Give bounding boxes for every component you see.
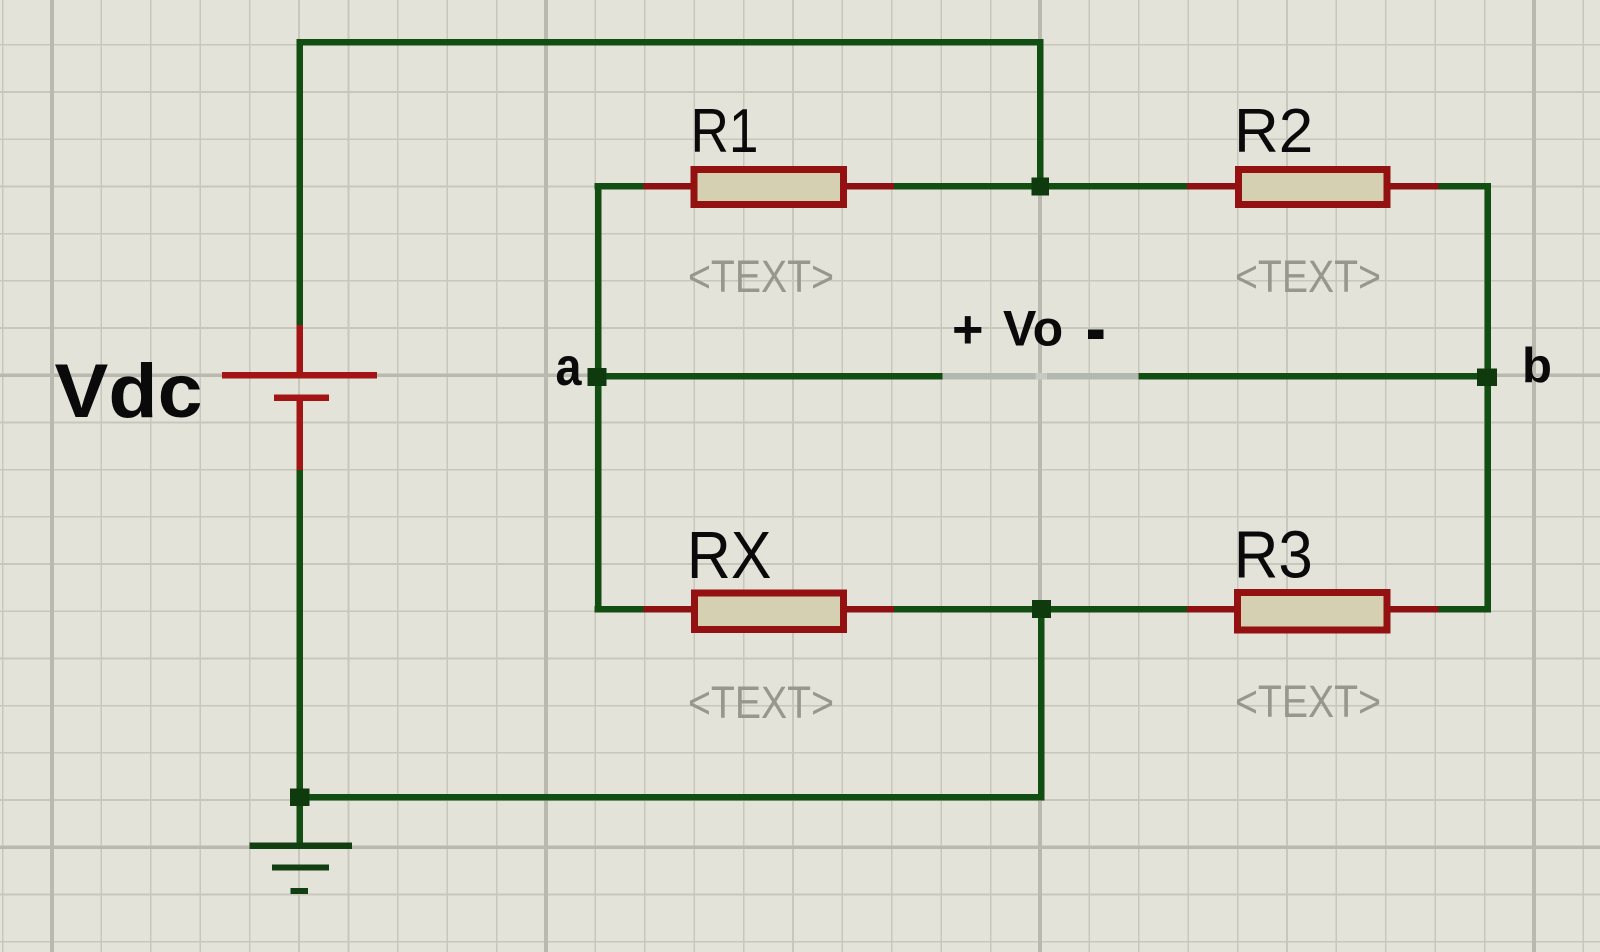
svg-text:R1: R1 (691, 97, 759, 166)
wire middle row left green (node a to Vo) (595, 373, 943, 380)
junction bottom middle (1032, 600, 1051, 618)
svg-text:R2: R2 (1234, 97, 1313, 166)
ground top bar (250, 843, 353, 849)
resistor RX right lead (846, 606, 894, 612)
node a junction (588, 368, 607, 386)
resistor R2 left lead (1187, 183, 1236, 189)
wire row2 left green (595, 606, 645, 613)
ground middle bar (272, 864, 329, 870)
svg-text:<TEXT>: <TEXT> (688, 677, 834, 728)
resistor R1 right lead (846, 183, 894, 189)
resistor RX left lead (644, 606, 693, 612)
wire battery bottom vertical (297, 470, 304, 801)
wire middle row right green (Vo to node b) (1139, 373, 1491, 380)
node b junction (1477, 368, 1497, 386)
wire row1 right green (1437, 183, 1491, 190)
junction top middle (1032, 177, 1050, 195)
resistor R3 right lead (1390, 606, 1439, 612)
wire right bridge vertical (1484, 183, 1491, 612)
svg-text:<TEXT>: <TEXT> (1235, 251, 1381, 302)
svg-text:Vdc: Vdc (55, 349, 203, 434)
junction battery bottom (290, 788, 310, 806)
resistor R1 left lead (644, 183, 693, 189)
svg-text:b: b (1522, 339, 1552, 393)
svg-text:+: + (952, 300, 984, 360)
wire bottom horizontal (297, 794, 1044, 801)
resistor RX body (691, 590, 847, 633)
svg-text:<TEXT>: <TEXT> (688, 251, 834, 302)
svg-text:a: a (556, 337, 583, 397)
resistor R3 left lead (1187, 606, 1235, 612)
svg-text:<TEXT>: <TEXT> (1235, 676, 1381, 727)
wire middle row gray Vo segment (943, 373, 1139, 380)
wire battery top vertical (297, 39, 304, 325)
wire row2 center green (893, 606, 1189, 613)
battery Vdc positive long plate (222, 372, 377, 379)
wire top horizontal (297, 39, 1044, 46)
battery Vdc negative short plate (274, 394, 329, 401)
resistor R3 body (1234, 589, 1391, 634)
resistor R1 body (691, 166, 847, 208)
svg-text:Vo: Vo (1003, 301, 1063, 357)
wire row2 right green (1437, 606, 1491, 613)
wire ground stem (297, 797, 304, 843)
wire middle column bottom vertical (1038, 609, 1045, 800)
resistor R2 right lead (1390, 183, 1439, 189)
ground bottom bar (291, 888, 309, 894)
wire row1 left green (595, 183, 645, 190)
label Vo minus sign (1088, 330, 1104, 340)
wire row1 center green (893, 183, 1189, 190)
wire left bridge vertical (595, 183, 602, 612)
battery Vdc red bottom lead (296, 401, 303, 470)
svg-text:RX: RX (687, 518, 772, 593)
wire middle row gray lighter block (1036, 373, 1048, 380)
svg-text:R3: R3 (1234, 518, 1313, 593)
battery Vdc red top lead (296, 325, 303, 372)
wire middle column top vertical (1037, 39, 1044, 187)
resistor R2 body (1235, 166, 1391, 208)
